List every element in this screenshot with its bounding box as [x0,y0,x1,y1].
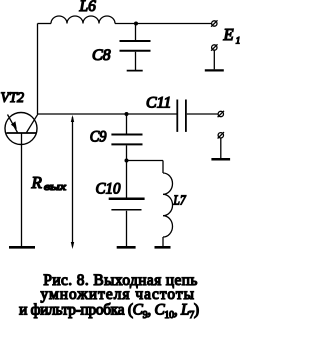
wire: L7 top lead [162,161,164,174]
junction: C8 tap on top wire [134,22,138,26]
junction: C9 tap on collector rail [125,112,129,116]
capacitor C8 [120,24,151,71]
wire: collector rail (VT2 to C11) [38,113,178,115]
inductor L7 [163,173,173,237]
svg-text:1: 1 [236,36,241,46]
terminal: supply E1 (top right) [211,20,217,26]
wire: top horizontal, L6 end to supply terminal [115,23,212,25]
capacitor C10 [109,161,145,247]
junction: C9/C10/L7 node [125,159,129,163]
capacitor C11 [177,100,186,132]
svg-text:VT2: VT2 [1,90,25,106]
wire: C11 to output terminal [187,113,218,115]
svg-text:C9: C9 [90,128,107,145]
wire: left vertical from L6 corner down to VT2 collector node [37,24,39,115]
svg-text:E: E [223,25,234,44]
terminal: output [218,111,224,117]
terminal: output return [218,132,224,138]
svg-text:вых: вых [44,182,67,193]
wire: L7 bottom lead [162,237,164,246]
wire: VT2 base lead down to ground [21,133,23,246]
svg-text:C11: C11 [146,95,171,112]
ground: mid-right [211,158,230,161]
transistor VT2 [5,113,38,145]
node: Rout measuring arrow [71,115,74,249]
wire: top horizontal, corner to L6 start [38,23,52,25]
wire: branch to L7 [127,160,164,162]
caption [19,272,199,321]
svg-text:C10: C10 [96,181,121,198]
inductor L6 [51,16,115,24]
svg-text:умножителя частоты: умножителя частоты [41,286,194,303]
ground: open-end bar below C8 [127,70,143,72]
capacitor C9 [111,114,142,161]
svg-text:L7: L7 [173,193,187,208]
ground: below C10 [117,246,136,249]
terminal: common (below E1) [211,44,217,50]
ground: below L7 [155,246,171,249]
ground: top-right [205,69,224,71]
svg-text:и фильтр-пробка (C9, C10, L7): и фильтр-пробка (C9, C10, L7) [19,302,199,322]
ground: below VT2 [9,246,35,249]
wire: terminal to mid-right ground [220,138,222,158]
svg-text:R: R [31,173,43,192]
svg-text:C8: C8 [92,47,111,64]
svg-text:L6: L6 [79,0,97,15]
wire: terminal to top-right ground [213,50,215,69]
